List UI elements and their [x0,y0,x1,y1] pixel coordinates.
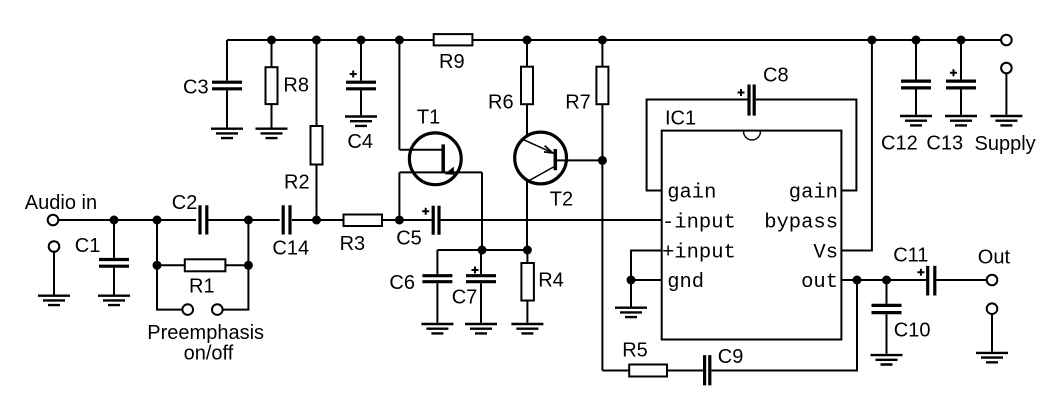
terminal switch right [212,304,223,315]
resistor R1 [185,259,226,271]
RESISTORS [185,34,667,376]
resistor R9 [434,34,473,45]
wire R7 leads [601,40,603,160]
ground IC1 gnd pin [615,308,647,317]
svg-text:C13: C13 [926,133,963,155]
svg-text:R3: R3 [340,233,366,255]
capacitor C8 [749,85,754,116]
wire T1 drain to bus [398,40,400,150]
wire gnd pin [631,280,662,307]
ground supply terminal [990,116,1022,125]
wire R8 leads [271,40,273,128]
IC1 notch [744,132,761,140]
terminal switch left [182,304,193,315]
terminal out ground [987,303,998,314]
node R4 top [523,246,532,255]
GROUNDS [38,116,1022,365]
svg-text:C5: C5 [396,228,422,250]
IC PIN LABELS [662,181,838,293]
wire C13 leads [960,40,962,115]
wire C11 to Out terminal [935,279,987,281]
terminal audio in [48,215,59,226]
svg-text:C3: C3 [183,77,209,99]
svg-text:C6: C6 [389,272,415,294]
wire C1 leads [113,220,115,295]
svg-text:T2: T2 [550,189,573,211]
ground C3 [211,129,243,138]
op-amp IC1 box [662,131,842,340]
wire C5 to IC1 -input [441,219,662,221]
node input-R2 [312,216,321,225]
resistor R3 [344,215,383,227]
ground C6 [421,324,453,333]
capacitor C6 [422,276,452,282]
ground C7 [465,324,497,333]
resistor R8 [266,67,278,104]
svg-text:Audio in: Audio in [25,192,97,214]
ground C12 [900,116,932,125]
capacitor C4 [346,82,376,89]
svg-text:R6: R6 [488,92,514,114]
wire C3 leads [226,40,228,128]
svg-text:gain: gain [667,181,716,204]
svg-text:C12: C12 [881,133,918,155]
svg-text:-input: -input [662,211,736,234]
svg-text:Out: Out [978,247,1011,269]
wire C7 leads [480,250,482,323]
wire R5 to C9 [667,370,703,372]
node bus-R7 [598,36,607,45]
wire R6 leads [526,40,528,138]
ground C1 [98,296,130,305]
resistor R2 [311,126,323,165]
plus sign C5 [422,208,429,215]
wire feedback bottom R5 [602,370,629,372]
svg-text:R5: R5 [622,340,648,362]
wire input ground terminal [53,252,55,295]
transistor T2 [515,132,567,184]
wire top supply bus left segment [227,39,434,41]
wire feedback vertical R7-R5 [601,160,603,370]
svg-text:C1: C1 [75,235,101,257]
capacitor C9 [705,355,710,385]
svg-text:gnd: gnd [667,271,704,294]
svg-text:C9: C9 [718,346,744,368]
CAPACITORS [99,81,976,385]
svg-text:C8: C8 [763,65,789,87]
plus sign C7 [472,267,479,274]
node bus-R2 [312,36,321,45]
wire out ground terminal [991,314,993,352]
ground C10 [871,355,903,364]
plus sign C11 [917,269,924,276]
plus sign C4 [350,71,357,78]
svg-text:R8: R8 [283,75,309,97]
svg-text:C7: C7 [452,287,478,309]
wire switch left [157,265,182,309]
node gnd +input [627,276,636,285]
wire top supply bus right segment [472,39,1001,41]
wire switch right [223,265,249,309]
capacitor C14 [283,205,290,234]
wire R4 leads [526,250,528,323]
wire audio input line [58,219,196,221]
node bus-Vs [867,36,876,45]
svg-text:C14: C14 [272,238,309,260]
wire C12 leads [915,40,917,115]
svg-text:R2: R2 [284,172,310,194]
terminal supply ground [1001,63,1012,74]
wire R2 leads [316,40,318,220]
capacitor C11 [928,266,935,296]
node R1 left end [153,261,162,270]
ground input terminal [38,296,70,305]
wire T2 emitter bottom vertical [526,180,528,250]
svg-text:R9: R9 [439,51,465,73]
node bus-R8 [267,36,276,45]
plus sign C8 [738,89,745,96]
svg-text:Vs: Vs [813,241,838,264]
wire C9 to out [711,280,857,371]
node bus-C13 [957,36,966,45]
capacitor C12 [901,81,931,88]
svg-text:R4: R4 [538,270,564,292]
wire gain loop right [756,100,857,191]
svg-text:out: out [801,271,838,294]
wire supply ground terminal [1005,74,1007,115]
ground out terminal [976,353,1008,362]
ground C13 [945,116,977,125]
resistor R6 [521,67,533,105]
wire R3 leads [317,219,400,221]
node bus-C4 [357,36,366,45]
svg-text:Preemphasis: Preemphasis [147,322,264,344]
svg-text:Supply: Supply [975,133,1036,155]
POLARITY MARKS [350,69,957,276]
wire T1 gate down to signal [398,172,400,220]
wire out pin to C11 [841,279,926,281]
wire C6 C7 R4 horizontal [437,249,527,251]
node input-C1 [110,216,119,225]
svg-text:C10: C10 [894,320,931,342]
capacitor C10 [872,305,902,312]
svg-text:IC1: IC1 [665,108,696,130]
wire +input loop [631,251,662,281]
wire gain loop left [647,100,748,191]
node R1 right end [244,261,253,270]
node R3-C5-T1 [395,216,404,225]
svg-text:R7: R7 [565,92,591,114]
wire junction to C5 [399,219,431,221]
wire T2 base to R7 [557,159,603,161]
svg-text:C4: C4 [347,131,373,153]
svg-text:gain: gain [789,181,838,204]
wire R1 branch left [157,220,185,265]
transistor T1 [409,133,461,185]
node input-R1 left [153,216,162,225]
node out C10 [882,276,891,285]
node T2 base R7 [598,156,607,165]
wire R1 branch right [225,220,248,265]
svg-text:R1: R1 [189,276,215,298]
ground R4 [511,324,543,333]
node bus-T1 [395,36,404,45]
terminal out [987,275,998,286]
wire C6 leads [436,250,438,323]
svg-text:C2: C2 [172,192,198,214]
wire C2 to C14 [208,219,280,221]
node C7 top [478,246,487,255]
resistor R5 [629,365,667,377]
node input-R1 right [244,216,253,225]
capacitor C5 [433,206,439,235]
resistor R7 [596,67,608,105]
wire C14 to R3 [292,219,344,221]
capacitor C1 [99,260,129,267]
wire T1 drain horizontal [399,149,441,151]
terminal supply [1001,35,1012,46]
svg-text:bypass: bypass [764,211,838,234]
wire C10 leads [886,280,888,354]
plus sign C13 [950,69,957,76]
wire T1 source horizontal [399,171,482,173]
resistor R4 [521,263,534,301]
capacitor C2 [200,205,207,234]
capacitor C7 [466,276,496,282]
capacitor C3 [212,82,242,89]
capacitor C13 [946,81,976,88]
wire C7 top vertical [481,172,483,250]
svg-text:+input: +input [662,241,736,264]
node bus-R6 [523,36,532,45]
svg-text:C11: C11 [893,245,928,267]
TERMINALS [48,35,1012,315]
wire C4 leads [360,40,362,115]
wire Vs to bus [841,40,872,251]
svg-text:on/off: on/off [184,343,234,365]
node bus-C12 [912,36,921,45]
svg-text:T1: T1 [417,107,440,129]
node out feedback [853,276,862,285]
terminal audio in ground [49,241,60,252]
ground R8 [256,129,288,138]
ground C4 [345,117,377,126]
